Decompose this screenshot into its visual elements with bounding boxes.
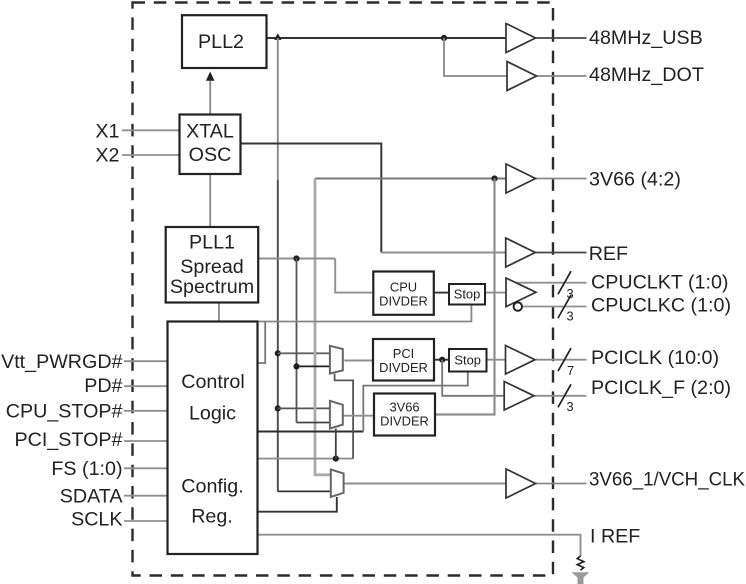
slash CPUCLKT /3: [558, 271, 571, 294]
wire 3V66 divider output riser: [435, 179, 495, 415]
wire control input PCI_STOP#: [124, 440, 168, 442]
wire PCICLK output: [536, 359, 587, 361]
svg-text:3V66 (4:2): 3V66 (4:2): [589, 169, 681, 191]
wire to mux1 input A: [278, 352, 331, 354]
wire mux2 output to 3V66 divider: [343, 415, 374, 417]
wire CPUCLKC output: [522, 306, 587, 308]
wire XTAL OSC to PLL1: [209, 174, 211, 227]
MUXES: [330, 346, 344, 497]
block Control Logic / Config Reg: [168, 322, 258, 555]
svg-text:SCLK: SCLK: [71, 508, 122, 530]
wire VCH buffer output: [535, 483, 587, 485]
wire control input PD#: [124, 385, 168, 387]
wire CPU divider to Stop: [434, 292, 449, 294]
dashed chip boundary: [133, 3, 554, 576]
wire PLL1 vertical feed: [296, 259, 298, 423]
buffer PCICLK_F: [504, 382, 534, 411]
wire X2 to XTAL OSC: [122, 154, 180, 156]
wire control input Vtt_PWRGD#: [124, 360, 168, 362]
wire to mux2 input A: [278, 407, 331, 409]
buffer PCICLK: [506, 346, 536, 375]
svg-text:X2: X2: [95, 145, 119, 167]
svg-text:Stop: Stop: [454, 287, 481, 302]
wire Stop1 enable from Control Logic: [258, 305, 472, 322]
wire mux3 select from Control Logic: [258, 497, 337, 512]
wire 48MHz_DOT buffer output: [536, 75, 587, 77]
wire CPUCLKT output: [514, 282, 587, 284]
svg-text:DIVDER: DIVDER: [379, 294, 428, 309]
mux 2 (3V66 select): [330, 401, 343, 429]
svg-text:Stop: Stop: [454, 353, 481, 368]
wire REF buffer output: [535, 252, 587, 254]
svg-text:PD#: PD#: [84, 375, 122, 397]
wire to mux2 input B: [297, 422, 331, 424]
svg-text:48MHz_USB: 48MHz_USB: [589, 27, 703, 49]
wire PCI free clock to PCICLK_F buffer: [442, 360, 504, 396]
svg-text:CPUCLKC (1:0): CPUCLKC (1:0): [591, 295, 731, 317]
wire PLL1 to Control Logic: [218, 303, 220, 322]
wire Control Logic stub joining stop-enable: [258, 322, 266, 364]
wire XTAL OSC output to REF: [241, 144, 382, 253]
block XTAL OSC: [180, 115, 241, 175]
node junction PLL1 output: [293, 255, 299, 261]
I REF arrow to ground: [572, 572, 590, 584]
svg-text:Spread: Spread: [180, 256, 244, 278]
svg-text:PCICLK (10:0): PCICLK (10:0): [591, 347, 719, 369]
node junction 3V66 divider tap: [491, 175, 497, 181]
svg-text:Reg.: Reg.: [191, 506, 233, 528]
PIN LABELS RIGHT: [589, 27, 745, 548]
slash PCICLK /7: [558, 348, 571, 371]
wire 48MHz vertical feed to muxes: [277, 38, 279, 180]
wire Stop2 enable from Control Logic: [258, 431, 364, 433]
svg-text:PCICLK_F (2:0): PCICLK_F (2:0): [591, 377, 731, 399]
wire select up to mux1: [335, 374, 354, 459]
svg-text:SDATA: SDATA: [60, 485, 124, 507]
OUTPUT BUFFERS: [504, 24, 536, 499]
wire PLL2 output 48MHz: [267, 37, 507, 39]
wire control input SCLK: [124, 520, 168, 522]
wire 48MHz_USB buffer output: [535, 37, 587, 39]
svg-text:3V66: 3V66: [389, 400, 419, 415]
block PLL2: [182, 15, 267, 68]
wire Stop to CPUCLK buffer: [485, 292, 506, 294]
svg-text:PLL2: PLL2: [198, 31, 244, 53]
svg-text:48MHz_DOT: 48MHz_DOT: [589, 64, 704, 86]
node 48MHz branch junction: [441, 35, 447, 41]
buffer REF: [506, 238, 536, 267]
block PCI DIVDER: [373, 339, 434, 381]
block Stop 2: [449, 349, 487, 372]
svg-text:DIVDER: DIVDER: [380, 414, 429, 429]
svg-text:3: 3: [567, 286, 574, 301]
wire 3V66 feed line: [315, 178, 506, 180]
svg-text:PCI: PCI: [393, 346, 415, 361]
buffer 48MHz_USB: [506, 24, 536, 53]
PIN LABELS LEFT: [1, 120, 123, 530]
wire mux1 output to PCI divider: [344, 360, 373, 362]
wire control input FS: [124, 467, 168, 469]
svg-text:I REF: I REF: [590, 526, 640, 548]
slash PCICLK_F /3: [558, 384, 571, 407]
wire 3V66 buffer output: [535, 178, 587, 180]
wire XTAL OSC to PLL2 (arrow up): [209, 80, 211, 114]
wire select up to mux2: [335, 429, 337, 459]
svg-text:Control: Control: [181, 371, 244, 393]
svg-text:CPUCLKT (1:0): CPUCLKT (1:0): [591, 272, 729, 294]
svg-text:FS (1:0): FS (1:0): [51, 458, 122, 480]
mux 1 (PCI clock select): [330, 346, 343, 374]
node junction PCI free tap: [439, 357, 445, 363]
wire PLL1 to CPU divider: [335, 259, 373, 293]
node junction mux2 input: [275, 405, 281, 411]
svg-text:3V66_1/VCH_CLK: 3V66_1/VCH_CLK: [589, 469, 745, 491]
buffer 48MHz_DOT: [507, 62, 537, 91]
svg-text:Vtt_PWRGD#: Vtt_PWRGD#: [1, 351, 122, 373]
slash CPUCLKC /3: [558, 295, 571, 318]
svg-text:OSC: OSC: [189, 144, 232, 166]
BLOCK TEXT: [170, 31, 254, 528]
wire control input SDATA: [124, 495, 168, 497]
svg-text:PCI_STOP#: PCI_STOP#: [15, 429, 123, 451]
node 48MHz tap arrow at x=278: [274, 33, 281, 40]
buffer 3V66_1/VCH_CLK: [506, 469, 536, 498]
svg-text:X1: X1: [95, 120, 119, 142]
wire 3V66 riser down to mux3: [315, 179, 331, 475]
wire I REF: [258, 535, 581, 557]
wire to mux1 input B: [297, 365, 331, 367]
wire mux3 output to VCH buffer: [344, 483, 506, 485]
block PLL1 Spread Spectrum: [166, 227, 259, 303]
svg-text:Spectrum: Spectrum: [170, 276, 254, 298]
wire X1 to XTAL OSC: [122, 129, 180, 131]
wire Stop2 to PCICLK buffer: [487, 359, 506, 361]
svg-text:CPU: CPU: [390, 280, 417, 295]
wire mux select from Control Logic: [258, 458, 353, 460]
wire control input CPU_STOP#: [124, 410, 168, 412]
wire PCICLK_F output: [535, 395, 587, 397]
svg-text:CPU_STOP#: CPU_STOP#: [6, 400, 123, 422]
wire to mux3 input B: [278, 490, 332, 492]
svg-text:XTAL: XTAL: [186, 121, 234, 143]
buffer 3V66: [506, 164, 536, 193]
block 3V66 DIVDER: [374, 394, 435, 436]
I REF resistor zigzag: [577, 556, 584, 570]
svg-text:Config.: Config.: [181, 476, 243, 498]
svg-text:PLL1: PLL1: [189, 232, 235, 254]
wire PCI divider to Stop: [434, 359, 449, 361]
svg-text:7: 7: [567, 363, 574, 378]
mux 3 (VCH clock select): [331, 469, 344, 497]
wire PLL1 output: [258, 258, 335, 260]
svg-text:Logic: Logic: [189, 403, 236, 425]
inverter bubble CPUCLKC: [514, 302, 522, 310]
block Stop 1: [449, 284, 485, 305]
block CPU DIVDER: [373, 272, 434, 315]
svg-text:REF: REF: [589, 243, 628, 265]
bus slashes: [558, 271, 571, 407]
wire branch down to DOT buffer: [444, 38, 507, 76]
svg-text:3: 3: [567, 399, 574, 414]
buffer CPUCLK differential: [506, 278, 536, 307]
node junction mux select: [333, 456, 339, 462]
svg-text:3: 3: [567, 309, 574, 324]
BLOCKS: [166, 15, 487, 554]
node junction mux1 input: [275, 350, 281, 356]
node junction mux1 input B: [293, 363, 299, 369]
svg-text:DIVDER: DIVDER: [379, 360, 428, 375]
